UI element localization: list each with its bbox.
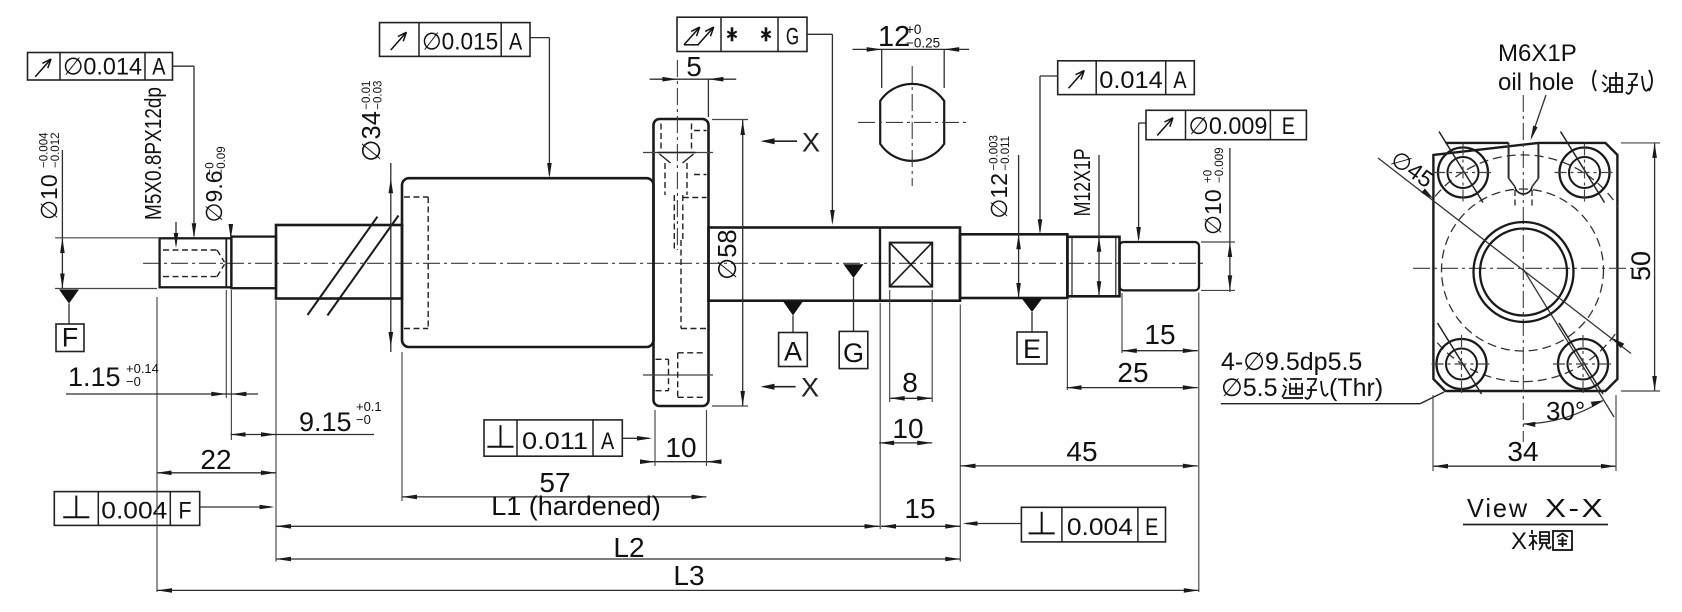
dimension 10 wrench flat	[879, 442, 932, 444]
svg-text:−0: −0	[126, 374, 141, 389]
svg-text:−0.25: −0.25	[906, 36, 940, 51]
bolt hole 2 slash	[1561, 132, 1605, 203]
end view vertical centerline	[1522, 95, 1524, 442]
svg-text:View: View	[1467, 493, 1529, 523]
section arrow X upper	[764, 140, 798, 142]
CJK through-hole note	[1282, 378, 1303, 398]
CJK oil hole in parentheses	[1602, 72, 1622, 92]
dimension L1 hardened	[276, 525, 880, 527]
svg-text:34: 34	[1507, 436, 1538, 467]
FCF leader to left journal	[173, 65, 195, 67]
dimension 15 after L1	[881, 525, 960, 527]
screw break mark 2	[327, 216, 398, 316]
bolt hole 3 through O5.5	[1446, 349, 1477, 380]
dimension 25	[1067, 387, 1198, 389]
svg-text:1.15: 1.15	[68, 362, 121, 392]
hidden lower bolt hole counterbore	[678, 352, 706, 354]
dimension M12 arrows	[1098, 155, 1100, 296]
dimension 10 flange width	[645, 461, 715, 463]
svg-text:A: A	[509, 29, 522, 56]
oil passage hidden lines	[673, 195, 675, 252]
wrench flat cross line 2	[890, 243, 933, 287]
dimension O45 diagonal	[1378, 158, 1631, 354]
svg-text:G: G	[843, 338, 864, 368]
svg-text:∅10: ∅10	[36, 174, 62, 220]
svg-text:∅34: ∅34	[358, 111, 386, 162]
svg-text:8: 8	[902, 367, 918, 398]
section circle with flats 12mm	[880, 84, 944, 161]
dimension 45	[961, 465, 1198, 467]
hidden far-side bolt hole	[656, 358, 669, 360]
svg-text:E: E	[1145, 514, 1158, 541]
bolt hole 1 counterbore O9.5	[1438, 148, 1488, 198]
dimension 12 across flats with tolerance	[853, 48, 970, 50]
center bore circle	[1480, 229, 1567, 316]
svg-text:M12X1P: M12X1P	[1069, 148, 1095, 216]
wrench flat square	[890, 243, 933, 287]
FCF leader to nut cylinder	[530, 37, 549, 39]
svg-text:−0: −0	[205, 162, 217, 175]
svg-text:22: 22	[200, 444, 231, 475]
hidden M5 tapped hole	[163, 249, 217, 251]
oil hole notch at top	[1508, 143, 1510, 178]
svg-text:−0.009: −0.009	[1214, 148, 1226, 184]
svg-text:M6X1P: M6X1P	[1498, 40, 1577, 67]
svg-text:−0.011: −0.011	[1000, 136, 1012, 171]
thread M12X1P section	[1067, 237, 1119, 296]
dimension 5 oil hole to flange face	[650, 78, 737, 80]
oil hole pilot hidden lines	[664, 163, 666, 195]
wrench flat cross line 1	[890, 243, 933, 287]
svg-text:25: 25	[1117, 357, 1148, 388]
svg-text:E: E	[1023, 334, 1041, 364]
wire main shaft centerline	[143, 262, 1205, 264]
FCF runout O0.014 A top-left	[28, 53, 173, 81]
shaft left journal O10 with M5 tapped hole	[160, 238, 232, 287]
svg-text:X: X	[801, 373, 819, 403]
screw break mark 1	[308, 217, 378, 315]
dimension O10 left	[61, 150, 63, 289]
svg-text:L1 (hardened): L1 (hardened)	[491, 491, 661, 521]
svg-text:30°: 30°	[1546, 396, 1585, 426]
dimension L2	[276, 558, 960, 560]
dimension L3	[157, 589, 1199, 591]
svg-text:−0.03: −0.03	[373, 81, 385, 110]
svg-text:0.004: 0.004	[1067, 514, 1133, 541]
bolt hole 2 centerline dashes	[1555, 172, 1615, 174]
hidden flange bore step	[683, 197, 707, 199]
thread chamfer line right	[1115, 238, 1117, 295]
bolt hole 3 counterbore O9.5	[1437, 339, 1487, 389]
end journal O10	[1120, 242, 1200, 290]
bolt hole 4 slash	[1559, 323, 1603, 394]
FCF runout 0.014 A right	[1058, 61, 1195, 95]
svg-text:E: E	[1282, 113, 1295, 140]
section circle vertical centerline	[911, 66, 913, 186]
svg-text:45: 45	[1066, 436, 1097, 467]
svg-text:15: 15	[1144, 319, 1175, 350]
datum E triangle and box	[1022, 299, 1042, 312]
flange O58	[654, 119, 709, 406]
FCF leader to screw section	[807, 33, 832, 35]
journal O12 section	[960, 234, 1067, 298]
shaft second journal	[231, 237, 276, 289]
svg-text:5: 5	[686, 51, 702, 82]
bolt hole centerline lower	[643, 374, 713, 376]
thread chamfer line left	[1071, 238, 1073, 295]
dimension 15 end journal	[1122, 350, 1198, 352]
bolt hole 2 counterbore O9.5	[1560, 148, 1610, 198]
bolt hole 4 centerline dashes	[1553, 363, 1613, 365]
dimension O34	[390, 163, 392, 352]
leader O9.6	[230, 224, 232, 236]
FCF total runout star star G	[677, 17, 807, 51]
dimension 1.15 groove width	[66, 393, 258, 395]
nut body cylinder O34	[402, 178, 654, 347]
svg-text:A: A	[601, 428, 614, 455]
svg-text:∅9.6: ∅9.6	[201, 170, 227, 222]
leader M6 oil hole	[1532, 95, 1547, 137]
center bore outer chamfer circle	[1474, 222, 1574, 322]
datum G triangle on axis and box	[844, 264, 864, 278]
oil hole countersink cone	[660, 154, 671, 163]
dimension 22	[157, 472, 277, 474]
bolt hole 1 centerline dashes	[1433, 172, 1493, 174]
svg-text:9.15: 9.15	[299, 407, 352, 437]
end view body outline with chamfered corners	[1433, 143, 1617, 391]
hidden nut counterbore	[404, 196, 428, 198]
svg-text:X: X	[802, 128, 820, 158]
svg-text:−0.01: −0.01	[361, 81, 373, 110]
oil hole counterbore line	[658, 152, 696, 154]
extension lines bottom	[156, 297, 158, 592]
svg-text:oil hole: oil hole	[1498, 69, 1574, 96]
note underline and leader	[1221, 403, 1420, 405]
svg-text:L3: L3	[673, 560, 704, 591]
FCF leader to flange face	[622, 437, 649, 439]
svg-text:X: X	[1511, 528, 1527, 555]
svg-text:10: 10	[892, 413, 923, 444]
end view horizontal centerline	[1413, 267, 1648, 269]
svg-text:+0: +0	[1203, 170, 1215, 183]
svg-text:A: A	[1173, 67, 1186, 94]
svg-text:∅0.015: ∅0.015	[422, 29, 498, 56]
svg-text:F: F	[62, 323, 79, 353]
dimension 34 end view	[1433, 465, 1616, 467]
svg-text:−0.004: −0.004	[39, 132, 51, 168]
spigot dashed circle	[1442, 189, 1604, 351]
dimension 8 wrench flat	[890, 397, 933, 399]
bolt hole 1 through O5.5	[1448, 157, 1479, 188]
bolt hole 3 slash	[1438, 323, 1482, 394]
shaft section behind nut to wrench flats	[709, 228, 961, 301]
FCF perpendicularity 0.004 E	[1021, 507, 1165, 542]
svg-text:−0.09: −0.09	[216, 146, 228, 175]
svg-text:−0: −0	[356, 412, 371, 427]
svg-text:∅5.5: ∅5.5	[1221, 374, 1278, 402]
FCF perpendicularity 0.004 F	[54, 492, 199, 526]
svg-text:∅0.009: ∅0.009	[1189, 113, 1268, 140]
svg-text:G: G	[786, 24, 799, 51]
datum A triangle and box	[783, 301, 803, 315]
FCF leader to O12 journal	[1040, 75, 1058, 77]
svg-text:M5X0.8PX12dp: M5X0.8PX12dp	[140, 87, 166, 220]
section circle horizontal centerline	[858, 121, 967, 123]
angle 30 arc	[1523, 401, 1603, 425]
FCF runout O0.009 E	[1146, 110, 1306, 139]
oil hole M6 hidden thread	[660, 124, 662, 152]
bolt hole 4 through O5.5	[1568, 349, 1599, 380]
bolt hole 4 counterbore O9.5	[1558, 339, 1608, 389]
svg-text:∅12: ∅12	[986, 173, 1012, 219]
ball screw threaded section	[276, 225, 402, 299]
svg-text:X-X: X-X	[1545, 493, 1605, 523]
svg-text:−0.012: −0.012	[50, 133, 62, 169]
svg-text:(Thr): (Thr)	[1329, 374, 1383, 402]
bolt hole centerline upper	[643, 152, 713, 154]
dimension O58 flange	[742, 120, 744, 406]
svg-text:0.014: 0.014	[1099, 67, 1163, 94]
svg-text:4-∅9.5dp5.5: 4-∅9.5dp5.5	[1221, 348, 1362, 376]
FCF leader to L1 datum line	[200, 506, 271, 508]
dimension O10 right	[1229, 148, 1231, 292]
svg-text:10: 10	[665, 432, 696, 463]
FCF leader to right datum line	[966, 523, 1021, 525]
leader M5 label	[175, 222, 177, 245]
svg-text:∅0.014: ∅0.014	[63, 54, 142, 81]
thread relief groove 1.15 wide	[225, 238, 227, 287]
svg-text:F: F	[178, 498, 191, 525]
FCF leader to end journal	[1139, 122, 1146, 124]
svg-text:0.011: 0.011	[522, 428, 588, 455]
dimension 9.15	[231, 434, 375, 436]
bolt hole 2 through O5.5	[1569, 157, 1600, 188]
svg-text:50: 50	[1626, 251, 1656, 281]
bolt circle dashed O45	[1409, 155, 1636, 382]
bolt hole 3 centerline dashes	[1432, 363, 1492, 365]
datum F triangle and box	[59, 290, 79, 304]
dimension 57	[402, 496, 707, 498]
dimension 50 end view	[1654, 143, 1656, 391]
svg-text:−0.003: −0.003	[989, 135, 1001, 171]
hidden upper bolt hole edges	[694, 130, 707, 132]
dimension O12 arrows	[1018, 155, 1020, 297]
svg-text:∅10: ∅10	[1200, 189, 1226, 235]
svg-text:∅58: ∅58	[714, 229, 742, 280]
svg-text:A: A	[152, 54, 165, 81]
boundary line at wrench flat section	[879, 228, 881, 301]
corner chamfer overshoot bottom-right / 30 deg ray	[1523, 268, 1614, 417]
svg-text:L2: L2	[613, 532, 644, 563]
FCF runout O0.015 A	[380, 23, 531, 57]
bolt hole 1 slash	[1439, 132, 1483, 203]
svg-text:15: 15	[904, 493, 935, 524]
section arrow X lower	[764, 386, 796, 388]
svg-text:A: A	[784, 336, 802, 366]
FCF perpendicularity 0.011 A	[484, 420, 622, 456]
